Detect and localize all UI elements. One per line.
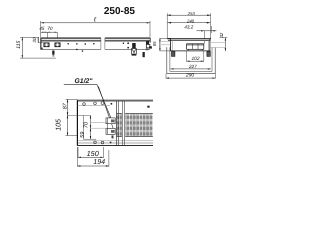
svg-text:290: 290 xyxy=(185,72,195,78)
svg-text:32: 32 xyxy=(219,32,224,37)
svg-text:248: 248 xyxy=(186,18,195,23)
svg-text:70: 70 xyxy=(84,121,90,128)
svg-text:30: 30 xyxy=(32,37,37,43)
svg-text:105: 105 xyxy=(55,119,62,131)
svg-text:70: 70 xyxy=(47,26,53,31)
svg-text:102: 102 xyxy=(191,56,199,62)
svg-text:G1/2": G1/2" xyxy=(75,78,94,85)
svg-text:253: 253 xyxy=(187,11,196,16)
svg-text:227: 227 xyxy=(188,64,197,69)
svg-text:194: 194 xyxy=(93,158,105,166)
svg-text:45: 45 xyxy=(39,26,45,31)
svg-text:115: 115 xyxy=(16,40,22,48)
svg-text:85: 85 xyxy=(152,41,157,46)
svg-text:43,2: 43,2 xyxy=(184,25,193,30)
svg-text:250-85: 250-85 xyxy=(104,6,136,17)
svg-text:59: 59 xyxy=(80,132,86,138)
svg-text:150: 150 xyxy=(87,149,99,158)
svg-text:87: 87 xyxy=(63,102,69,109)
